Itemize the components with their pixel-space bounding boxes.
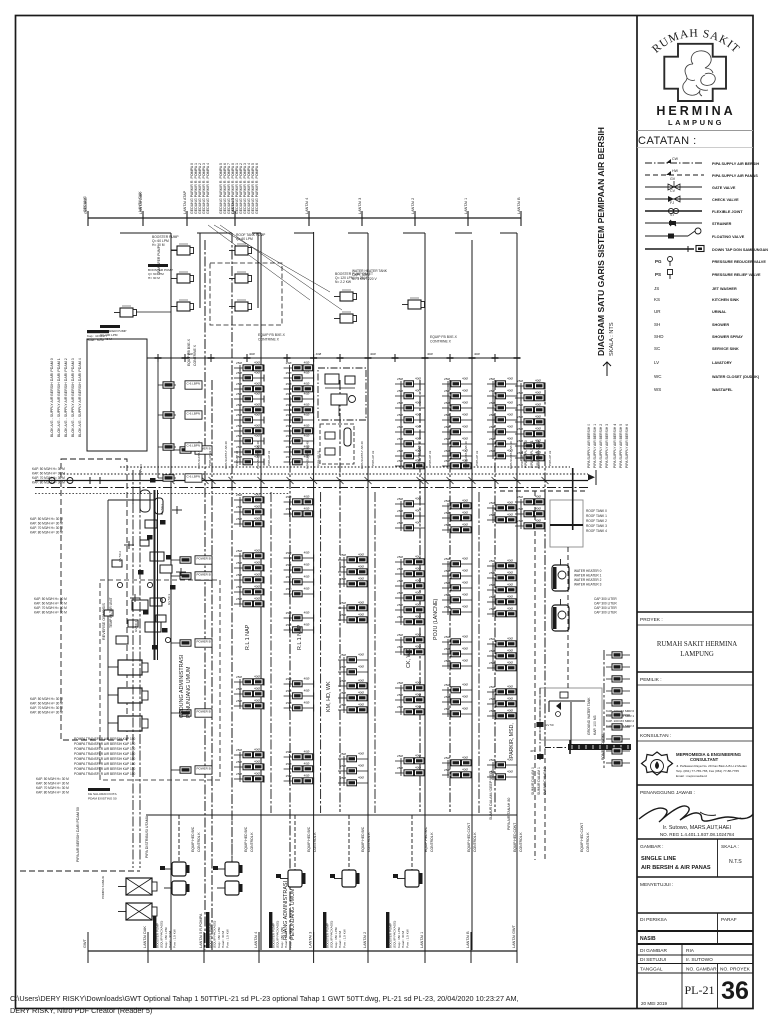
svg-text:PIPA SUPPLY AIR BERSIH 1: PIPA SUPPLY AIR BERSIH 1: [593, 424, 597, 468]
svg-text:40Ø: 40Ø: [304, 689, 310, 693]
svg-text:Pow : 1.5 KW: Pow : 1.5 KW: [342, 929, 346, 948]
svg-text:40Ø: 40Ø: [304, 382, 310, 386]
legend row: pressure switch: [655, 270, 761, 280]
top distribution main: [88, 217, 521, 219]
svg-text:EQUIP HED CONT: EQUIP HED CONT: [467, 823, 471, 852]
svg-text:25Ø: 25Ø: [397, 591, 403, 595]
svg-text:LANTAI B: LANTAI B: [466, 931, 470, 948]
svg-text:POJU (LANCNE): POJU (LANCNE): [433, 598, 439, 640]
pump room valve fittings: [147, 582, 152, 587]
svg-text:40Ø: 40Ø: [358, 776, 364, 780]
svg-text:40Ø: 40Ø: [415, 521, 421, 525]
GWT thick bar (deep well pump): [568, 744, 631, 750]
svg-text:KAP. 80 M3/H H= 30 M: KAP. 80 M3/H H= 30 M: [36, 791, 69, 795]
svg-text:HW: HW: [672, 169, 679, 173]
svg-text:40Ø: 40Ø: [462, 581, 468, 585]
svg-text:SKALA :: SKALA :: [721, 844, 739, 850]
svg-text:LANTAI B: LANTAI B: [517, 197, 521, 214]
svg-text:POMPA TRANSFER AIR BERSIH KAP: POMPA TRANSFER AIR BERSIH KAP 150: [74, 767, 136, 771]
svg-text:40Ø: 40Ø: [358, 752, 364, 756]
svg-text:Pow : 1.5 KW: Pow : 1.5 KW: [288, 929, 292, 948]
riser tick at x=362: [361, 211, 363, 226]
svg-text:40Ø: 40Ø: [462, 635, 468, 639]
riser x=545: [544, 390, 546, 750]
svg-text:CAP 300 LITER: CAP 300 LITER: [594, 602, 617, 606]
svg-text:40Ø: 40Ø: [304, 424, 310, 428]
svg-text:25Ø: 25Ø: [236, 748, 242, 752]
svg-text:40Ø: 40Ø: [254, 760, 260, 764]
svg-text:40Ø: 40Ø: [462, 695, 468, 699]
svg-text:25Ø: 25Ø: [236, 361, 242, 365]
svg-text:NO. PROYEK: NO. PROYEK: [720, 967, 751, 973]
svg-text:40Ø: 40Ø: [535, 403, 541, 407]
svg-text:WS: WS: [654, 387, 661, 392]
svg-text:25Ø: 25Ø: [489, 685, 495, 689]
svg-text:40Ø: 40Ø: [535, 495, 541, 499]
svg-text:LANTAI 2: LANTAI 2: [363, 932, 367, 948]
svg-text:25Ø: 25Ø: [444, 437, 450, 441]
svg-text:WATER HEATER 0: WATER HEATER 0: [574, 569, 602, 573]
svg-text:PRESSURE RELIEF VALVE: PRESSURE RELIEF VALVE: [712, 273, 761, 277]
svg-text:25Ø: 25Ø: [517, 495, 523, 499]
svg-text:40Ø: 40Ø: [304, 507, 310, 511]
svg-text:KAP. 80 M3/H H= 30 M: KAP. 80 M3/H H= 30 M: [30, 531, 63, 535]
svg-text:40Ø: 40Ø: [415, 413, 421, 417]
svg-text:25Ø: 25Ø: [397, 615, 403, 619]
svg-text:PIPA AP 32: PIPA AP 32: [208, 450, 212, 466]
svg-text:GV 50 3: GV 50 3: [167, 594, 171, 605]
svg-text:LANTAI DAK: LANTAI DAK: [138, 191, 142, 212]
svg-text:40Ø: 40Ø: [254, 361, 260, 365]
svg-text:25Ø: 25Ø: [397, 509, 403, 513]
svg-text:SKALA : NTS: SKALA : NTS: [609, 322, 615, 356]
svg-text:CONSULTANT: CONSULTANT: [690, 757, 719, 762]
svg-text:25Ø: 25Ø: [340, 653, 346, 657]
svg-text:25Ø: 25Ø: [340, 703, 346, 707]
svg-text:POWER B: POWER B: [197, 573, 211, 577]
pump room double main: [153, 490, 155, 660]
dashed verticals right: [534, 491, 536, 860]
svg-text:PIPA SUPPLY AIR BERSIH 6: PIPA SUPPLY AIR BERSIH 6: [625, 424, 629, 468]
svg-text:40Ø: 40Ø: [254, 371, 260, 375]
svg-text:25Ø: 25Ø: [286, 424, 292, 428]
svg-text:EQUIP HED B/C: EQUIP HED B/C: [361, 826, 365, 852]
svg-text:40Ø: 40Ø: [415, 645, 421, 649]
svg-text:CK, WC: CK, WC: [406, 648, 412, 668]
svg-text:N.T.S: N.T.S: [729, 859, 742, 865]
svg-text:25Ø: 25Ø: [286, 623, 292, 627]
svg-text:40Ø: 40Ø: [507, 770, 513, 774]
svg-text:PIPA SUPPLY AIR BERSIH 2: PIPA SUPPLY AIR BERSIH 2: [599, 424, 603, 468]
svg-text:25Ø: 25Ø: [489, 377, 495, 381]
pump cluster D: [408, 300, 421, 309]
svg-text:40Ø: 40Ø: [462, 647, 468, 651]
svg-text:DI PERIKSA: DI PERIKSA: [640, 917, 668, 923]
svg-text:25Ø: 25Ø: [444, 659, 450, 663]
svg-text:CONTROL K: CONTROL K: [313, 832, 317, 852]
svg-text:SUMUR DALAM 2: SUMUR DALAM 2: [543, 767, 547, 795]
svg-text:40Ø: 40Ø: [507, 377, 513, 381]
svg-text:40Ø: 40Ø: [427, 352, 433, 356]
svg-text:PRESSURE REDUCER VALVE: PRESSURE REDUCER VALVE: [712, 260, 766, 264]
svg-text:40Ø: 40Ø: [462, 569, 468, 573]
pump room inner dashed box: [100, 580, 220, 780]
svg-text:25Ø: 25Ø: [397, 754, 403, 758]
svg-text:40Ø: 40Ø: [507, 685, 513, 689]
svg-text:LV: LV: [654, 360, 659, 365]
sheet title: DIAGRAM SATU GARIS SISTEM PEMIPAAN AIR BERSIH: [596, 127, 615, 376]
legend row: WC: [654, 374, 760, 379]
svg-text:40Ø: 40Ø: [304, 392, 310, 396]
legend row: pressure gauge: [655, 257, 766, 267]
pump P1B: [235, 246, 248, 255]
svg-text:40Ø: 40Ø: [358, 764, 364, 768]
svg-text:40Ø: 40Ø: [507, 583, 513, 587]
svg-text:CHECK VALVE: CHECK VALVE: [712, 198, 739, 202]
svg-text:40Ø: 40Ø: [358, 601, 364, 605]
svg-text:25Ø: 25Ø: [489, 389, 495, 393]
svg-text:25Ø: 25Ø: [397, 705, 403, 709]
svg-text:KAP. 80 M3/H H= 30 M: KAP. 80 M3/H H= 30 M: [32, 481, 65, 485]
pump room pipes: [154, 490, 156, 660]
fixture column riser x=425: [395, 383, 425, 385]
transfer pumps: [118, 660, 142, 675]
heater tanks: [552, 565, 569, 591]
svg-text:EQUIP HED CONT: EQUIP HED CONT: [580, 823, 584, 852]
legend row: floating valve: [645, 228, 745, 239]
svg-text:Ir. Sutowo, MARS,AUT,HAEI: Ir. Sutowo, MARS,AUT,HAEI: [663, 825, 731, 831]
svg-text:EQUIP FB BXE-X: EQUIP FB BXE-X: [430, 335, 458, 339]
svg-text:TEMP FILTER UNIT: TEMP FILTER UNIT: [109, 597, 113, 628]
legend row: gate valve: [645, 177, 736, 190]
svg-text:PIPA SUPPLY AB 40: PIPA SUPPLY AB 40: [224, 441, 228, 469]
svg-text:40Ø: 40Ø: [507, 389, 513, 393]
riser tick at x=468: [467, 211, 469, 226]
svg-text:25Ø: 25Ø: [489, 758, 495, 762]
svg-text:25Ø: 25Ø: [236, 675, 242, 679]
svg-text:25Ø: 25Ø: [236, 445, 242, 449]
svg-text:FLEXIBLE JOINT: FLEXIBLE JOINT: [712, 210, 743, 214]
svg-text:Telp. (061) 77-765-765, Fax (0: Telp. (061) 77-765-765, Fax (061) 77-88-…: [676, 769, 739, 773]
svg-text:40Ø: 40Ø: [462, 605, 468, 609]
pump P2A: [177, 274, 190, 283]
svg-text:25Ø: 25Ø: [286, 677, 292, 681]
svg-text:40Ø: 40Ø: [507, 413, 513, 417]
leader diagonals: [208, 225, 310, 300]
svg-text:PIPA SUPPLY AB 40: PIPA SUPPLY AB 40: [306, 441, 310, 469]
svg-text:25Ø: 25Ø: [397, 633, 403, 637]
svg-text:40Ø: 40Ø: [304, 623, 310, 627]
svg-text:40Ø: 40Ø: [304, 371, 310, 375]
nasib band: [637, 930, 753, 932]
svg-text:40Ø: 40Ø: [415, 579, 421, 583]
svg-text:25Ø: 25Ø: [397, 497, 403, 501]
pump P2B: [235, 274, 248, 283]
svg-text:CONTRINE X: CONTRINE X: [193, 344, 197, 366]
svg-text:36: 36: [721, 977, 749, 1005]
svg-text:40Ø: 40Ø: [254, 505, 260, 509]
svg-text:40Ø: 40Ø: [462, 401, 468, 405]
svg-text:KONSULTAN :: KONSULTAN :: [640, 733, 671, 739]
svg-text:GEDUNG: GEDUNG: [83, 196, 87, 212]
svg-text:40Ø: 40Ø: [254, 748, 260, 752]
svg-text:REVERSE OSMOSIS: REVERSE OSMOSIS: [102, 603, 106, 640]
svg-text:25Ø: 25Ø: [236, 760, 242, 764]
svg-text:20 MEI 2019: 20 MEI 2019: [641, 1001, 667, 1006]
svg-text:PEMILIK :: PEMILIK :: [640, 677, 662, 683]
svg-text:40Ø: 40Ø: [304, 361, 310, 365]
svg-text:40Ø: 40Ø: [535, 391, 541, 395]
pump manifolds top clusters: [199, 233, 201, 308]
svg-text:40Ø: 40Ø: [462, 523, 468, 527]
svg-text:Pow : 1.5 KW: Pow : 1.5 KW: [172, 929, 176, 948]
svg-text:WATER HEATER 2: WATER HEATER 2: [574, 578, 602, 582]
svg-text:25Ø: 25Ø: [444, 377, 450, 381]
svg-text:ROOF TANK 1: ROOF TANK 1: [586, 514, 607, 518]
svg-text:25Ø: 25Ø: [397, 645, 403, 649]
svg-text:40Ø: 40Ø: [370, 352, 376, 356]
svg-text:40Ø: 40Ø: [304, 774, 310, 778]
svg-text:25Ø: 25Ø: [489, 425, 495, 429]
svg-text:25Ø: 25Ø: [397, 693, 403, 697]
svg-text:POMPA TRANSFER AIR BERSIH KAP: POMPA TRANSFER AIR BERSIH KAP 150: [74, 752, 136, 756]
svg-text:LANTAI 5 R.POMPA: LANTAI 5 R.POMPA: [199, 913, 203, 948]
svg-text:GEDUNG ADMINISTRASI: GEDUNG ADMINISTRASI: [179, 655, 185, 718]
svg-text:GEDUNG PARKIR R. POMPA 4: GEDUNG PARKIR R. POMPA 4: [206, 163, 210, 214]
svg-text:40Ø: 40Ø: [415, 603, 421, 607]
svg-text:25Ø: 25Ø: [444, 581, 450, 585]
svg-text:40Ø: 40Ø: [254, 549, 260, 553]
svg-text:25Ø: 25Ø: [489, 413, 495, 417]
svg-text:LANTAI 3: LANTAI 3: [358, 198, 362, 214]
svg-text:BLOK A/G - SUPPLY AIR BERSIH D: BLOK A/G - SUPPLY AIR BERSIH DARI PDAM 1: [57, 358, 61, 437]
svg-text:40Ø: 40Ø: [304, 677, 310, 681]
riser x=340: [339, 380, 341, 812]
svg-text:25Ø: 25Ø: [517, 415, 523, 419]
svg-text:Q= 60 LPM: Q= 60 LPM: [236, 237, 253, 241]
svg-text:GEDUNG PARKIR R. POMPA 6: GEDUNG PARKIR R. POMPA 6: [255, 163, 259, 214]
svg-text:KAP. 60 M3/H H= 30 M: KAP. 60 M3/H H= 30 M: [32, 472, 65, 476]
svg-text:R.L 1 NAP: R.L 1 NAP: [245, 624, 251, 650]
svg-text:BLOK A/G - SUPPLY AIR BERSIH D: BLOK A/G - SUPPLY AIR BERSIH DARI PDAM 2: [64, 358, 68, 437]
svg-text:40Ø: 40Ø: [462, 413, 468, 417]
svg-text:40Ø: 40Ø: [535, 379, 541, 383]
svg-text:40Ø: 40Ø: [507, 425, 513, 429]
legend row: SH: [654, 322, 729, 327]
svg-text:PIPA AP 32: PIPA AP 32: [428, 450, 432, 466]
svg-text:40Ø: 40Ø: [415, 425, 421, 429]
svg-text:N= 2.2 KW: N= 2.2 KW: [335, 280, 352, 284]
svg-text:40Ø: 40Ø: [358, 577, 364, 581]
svg-text:25Ø: 25Ø: [286, 403, 292, 407]
svg-text:FJ: FJ: [670, 201, 674, 205]
svg-text:WASTAFEL: WASTAFEL: [712, 388, 733, 392]
svg-text:LANTAI 4: LANTAI 4: [305, 198, 309, 214]
svg-text:25Ø: 25Ø: [236, 517, 242, 521]
svg-text:25Ø: 25Ø: [286, 455, 292, 459]
legend row: SC: [654, 346, 739, 351]
svg-text:25Ø: 25Ø: [489, 661, 495, 665]
svg-text:POMPA SUMUR: POMPA SUMUR: [101, 875, 105, 899]
svg-text:GV 50 4: GV 50 4: [134, 621, 138, 632]
svg-text:40Ø: 40Ø: [358, 665, 364, 669]
svg-text:40Ø: 40Ø: [535, 519, 541, 523]
svg-text:40Ø: 40Ø: [254, 413, 260, 417]
booster label block: [148, 264, 168, 267]
svg-text:EQUIP HED B/C: EQUIP HED B/C: [424, 826, 428, 852]
svg-text:25Ø: 25Ø: [517, 391, 523, 395]
booster paket dash-dot box: [318, 368, 366, 420]
svg-text:40Ø: 40Ø: [507, 697, 513, 701]
svg-text:40Ø: 40Ø: [507, 437, 513, 441]
svg-text:40Ø: 40Ø: [462, 557, 468, 561]
svg-text:JS: JS: [654, 286, 659, 291]
svg-text:KAP. 100 M3: KAP. 100 M3: [593, 715, 597, 735]
svg-text:PIPA SUPPLY RT 2: PIPA SUPPLY RT 2: [536, 440, 540, 468]
svg-text:POMPA TRANSFER AIR BERSIH KAP: POMPA TRANSFER AIR BERSIH KAP 150: [74, 742, 136, 746]
svg-text:25Ø: 25Ø: [286, 701, 292, 705]
svg-text:25Ø: 25Ø: [286, 392, 292, 396]
svg-text:25Ø: 25Ø: [286, 587, 292, 591]
pump P1A: [177, 246, 190, 255]
svg-text:PIPA SUPPLY AIR PANAS: PIPA SUPPLY AIR PANAS: [712, 174, 758, 178]
svg-text:25Ø: 25Ø: [286, 575, 292, 579]
svg-text:25Ø: 25Ø: [444, 635, 450, 639]
svg-text:40Ø: 40Ø: [507, 649, 513, 653]
svg-text:LAVATORY: LAVATORY: [712, 361, 732, 365]
riser x=517: [516, 233, 518, 950]
hospital logo: cross outline: [664, 44, 726, 101]
fixture column riser x=313.6: [284, 367, 314, 369]
svg-text:25Ø: 25Ø: [286, 611, 292, 615]
svg-text:KAP. 50 M3/H H= 30 M: KAP. 50 M3/H H= 30 M: [32, 467, 65, 471]
legend placeholder: [645, 157, 768, 392]
svg-text:25Ø: 25Ø: [444, 413, 450, 417]
svg-text:25Ø: 25Ø: [489, 501, 495, 505]
svg-text:C-6.LBPN: C-6.LBPN: [187, 475, 201, 479]
svg-text:25Ø: 25Ø: [444, 605, 450, 609]
signature: [639, 806, 753, 822]
svg-text:PIPA AP 32: PIPA AP 32: [235, 450, 239, 466]
fixture column riser x=472: [442, 383, 472, 385]
svg-text:LANTAI 4: LANTAI 4: [254, 932, 258, 948]
svg-text:40Ø: 40Ø: [415, 591, 421, 595]
svg-text:25Ø: 25Ø: [397, 389, 403, 393]
svg-text:PIPA SUPPLY AIR BERSIH 4: PIPA SUPPLY AIR BERSIH 4: [613, 424, 617, 468]
svg-text:KAP. 70 M3/H H= 30 M: KAP. 70 M3/H H= 30 M: [30, 706, 63, 710]
small pump west: [120, 308, 133, 317]
svg-text:25Ø: 25Ø: [286, 774, 292, 778]
riser x=420: [419, 380, 421, 812]
svg-text:25Ø: 25Ø: [444, 557, 450, 561]
rect header label: [87, 330, 109, 333]
svg-text:25Ø: 25Ø: [286, 563, 292, 567]
svg-text:40Ø: 40Ø: [304, 413, 310, 417]
svg-text:25Ø: 25Ø: [517, 507, 523, 511]
svg-text:BLOK A/G - SUPPLY AIR BERSIH D: BLOK A/G - SUPPLY AIR BERSIH DARI PDAM 4: [78, 358, 82, 437]
bottom pump tank at 405: [405, 870, 419, 887]
svg-text:25Ø: 25Ø: [444, 511, 450, 515]
svg-text:KAP. 50 M3/H H= 30 M: KAP. 50 M3/H H= 30 M: [34, 597, 67, 601]
svg-text:CW: CW: [672, 157, 679, 161]
riser x=212: [211, 380, 213, 950]
svg-text:25Ø: 25Ø: [489, 559, 495, 563]
svg-text:EQUIP FB BXE-X: EQUIP FB BXE-X: [258, 333, 286, 337]
dash-dot vertical pair: [132, 470, 134, 868]
svg-text:CONTROL K: CONTROL K: [250, 832, 254, 852]
svg-text:URINAL: URINAL: [712, 310, 727, 314]
legend row: pipa supply air bersih: [645, 157, 759, 166]
svg-text:DOWN TAP DGN SAMBUNGAN: DOWN TAP DGN SAMBUNGAN: [712, 248, 768, 252]
svg-text:40Ø: 40Ø: [462, 437, 468, 441]
empty header rectangle: [87, 339, 147, 451]
riser x=261: [260, 233, 262, 950]
svg-text:25Ø: 25Ø: [444, 695, 450, 699]
svg-text:25Ø: 25Ø: [489, 697, 495, 701]
GWT block: [540, 688, 602, 740]
svg-text:40Ø: 40Ø: [415, 705, 421, 709]
svg-text:40Ø: 40Ø: [462, 659, 468, 663]
svg-text:EQUIP HED CONT: EQUIP HED CONT: [513, 823, 517, 852]
svg-text:25Ø: 25Ø: [340, 577, 346, 581]
svg-text:25Ø: 25Ø: [397, 567, 403, 571]
svg-text:25Ø: 25Ø: [340, 601, 346, 605]
svg-text:PIPA AP 32: PIPA AP 32: [371, 450, 375, 466]
svg-text:25Ø: 25Ø: [236, 573, 242, 577]
svg-text:25Ø: 25Ø: [340, 776, 346, 780]
svg-text:GV: GV: [670, 177, 676, 181]
pump label block 172: [153, 912, 156, 948]
svg-text:40Ø: 40Ø: [254, 699, 260, 703]
svg-text:PARKIR, MSD,: PARKIR, MSD,: [509, 723, 515, 758]
svg-text:40Ø: 40Ø: [535, 427, 541, 431]
legend row: LV: [654, 360, 732, 365]
svg-text:ROOF TANK 4: ROOF TANK 4: [586, 529, 607, 533]
svg-text:PIPA SUPPLY AIR BERSIH: PIPA SUPPLY AIR BERSIH: [712, 162, 759, 166]
pump label block 288: [269, 912, 272, 948]
svg-text:KS: KS: [654, 297, 660, 302]
svg-text:25Ø: 25Ø: [340, 665, 346, 669]
svg-text:25Ø: 25Ø: [517, 379, 523, 383]
svg-text:25Ø: 25Ø: [489, 649, 495, 653]
legend row: UR: [654, 309, 727, 314]
svg-text:40Ø: 40Ø: [507, 401, 513, 405]
bottom collection main: [88, 950, 517, 952]
svg-text:WATER HEATER 3: WATER HEATER 3: [574, 583, 602, 587]
svg-text:KAP. 50 M3/H H= 30 M: KAP. 50 M3/H H= 30 M: [36, 777, 69, 781]
svg-text:SC: SC: [654, 346, 661, 351]
svg-text:GV 50: GV 50: [545, 723, 554, 727]
legend row: flexible joint: [645, 201, 743, 214]
svg-text:40Ø: 40Ø: [358, 613, 364, 617]
GWT feed dashdot with fittings: [539, 688, 541, 760]
pump label block 342: [323, 912, 326, 948]
svg-text:CONTROL K: CONTROL K: [197, 832, 201, 852]
svg-text:KAP. 60 M3/H H= 30 M: KAP. 60 M3/H H= 30 M: [36, 782, 69, 786]
svg-text:ST: ST: [670, 213, 675, 217]
svg-text:40Ø: 40Ø: [415, 681, 421, 685]
svg-text:PDAM EXISTING 50: PDAM EXISTING 50: [88, 797, 117, 801]
svg-text:WATER HEATER 1: WATER HEATER 1: [574, 574, 602, 578]
ke saluran block: [88, 788, 110, 791]
svg-text:25Ø: 25Ø: [340, 565, 346, 569]
fixture column riser x=517: [487, 383, 517, 385]
riser x=425: [424, 233, 426, 950]
riser x=171: [170, 233, 172, 950]
legend row: WS: [654, 387, 733, 392]
svg-text:PIPA SUPPLY AB 40: PIPA SUPPLY AB 40: [256, 441, 260, 469]
legend row: KS: [654, 297, 739, 302]
